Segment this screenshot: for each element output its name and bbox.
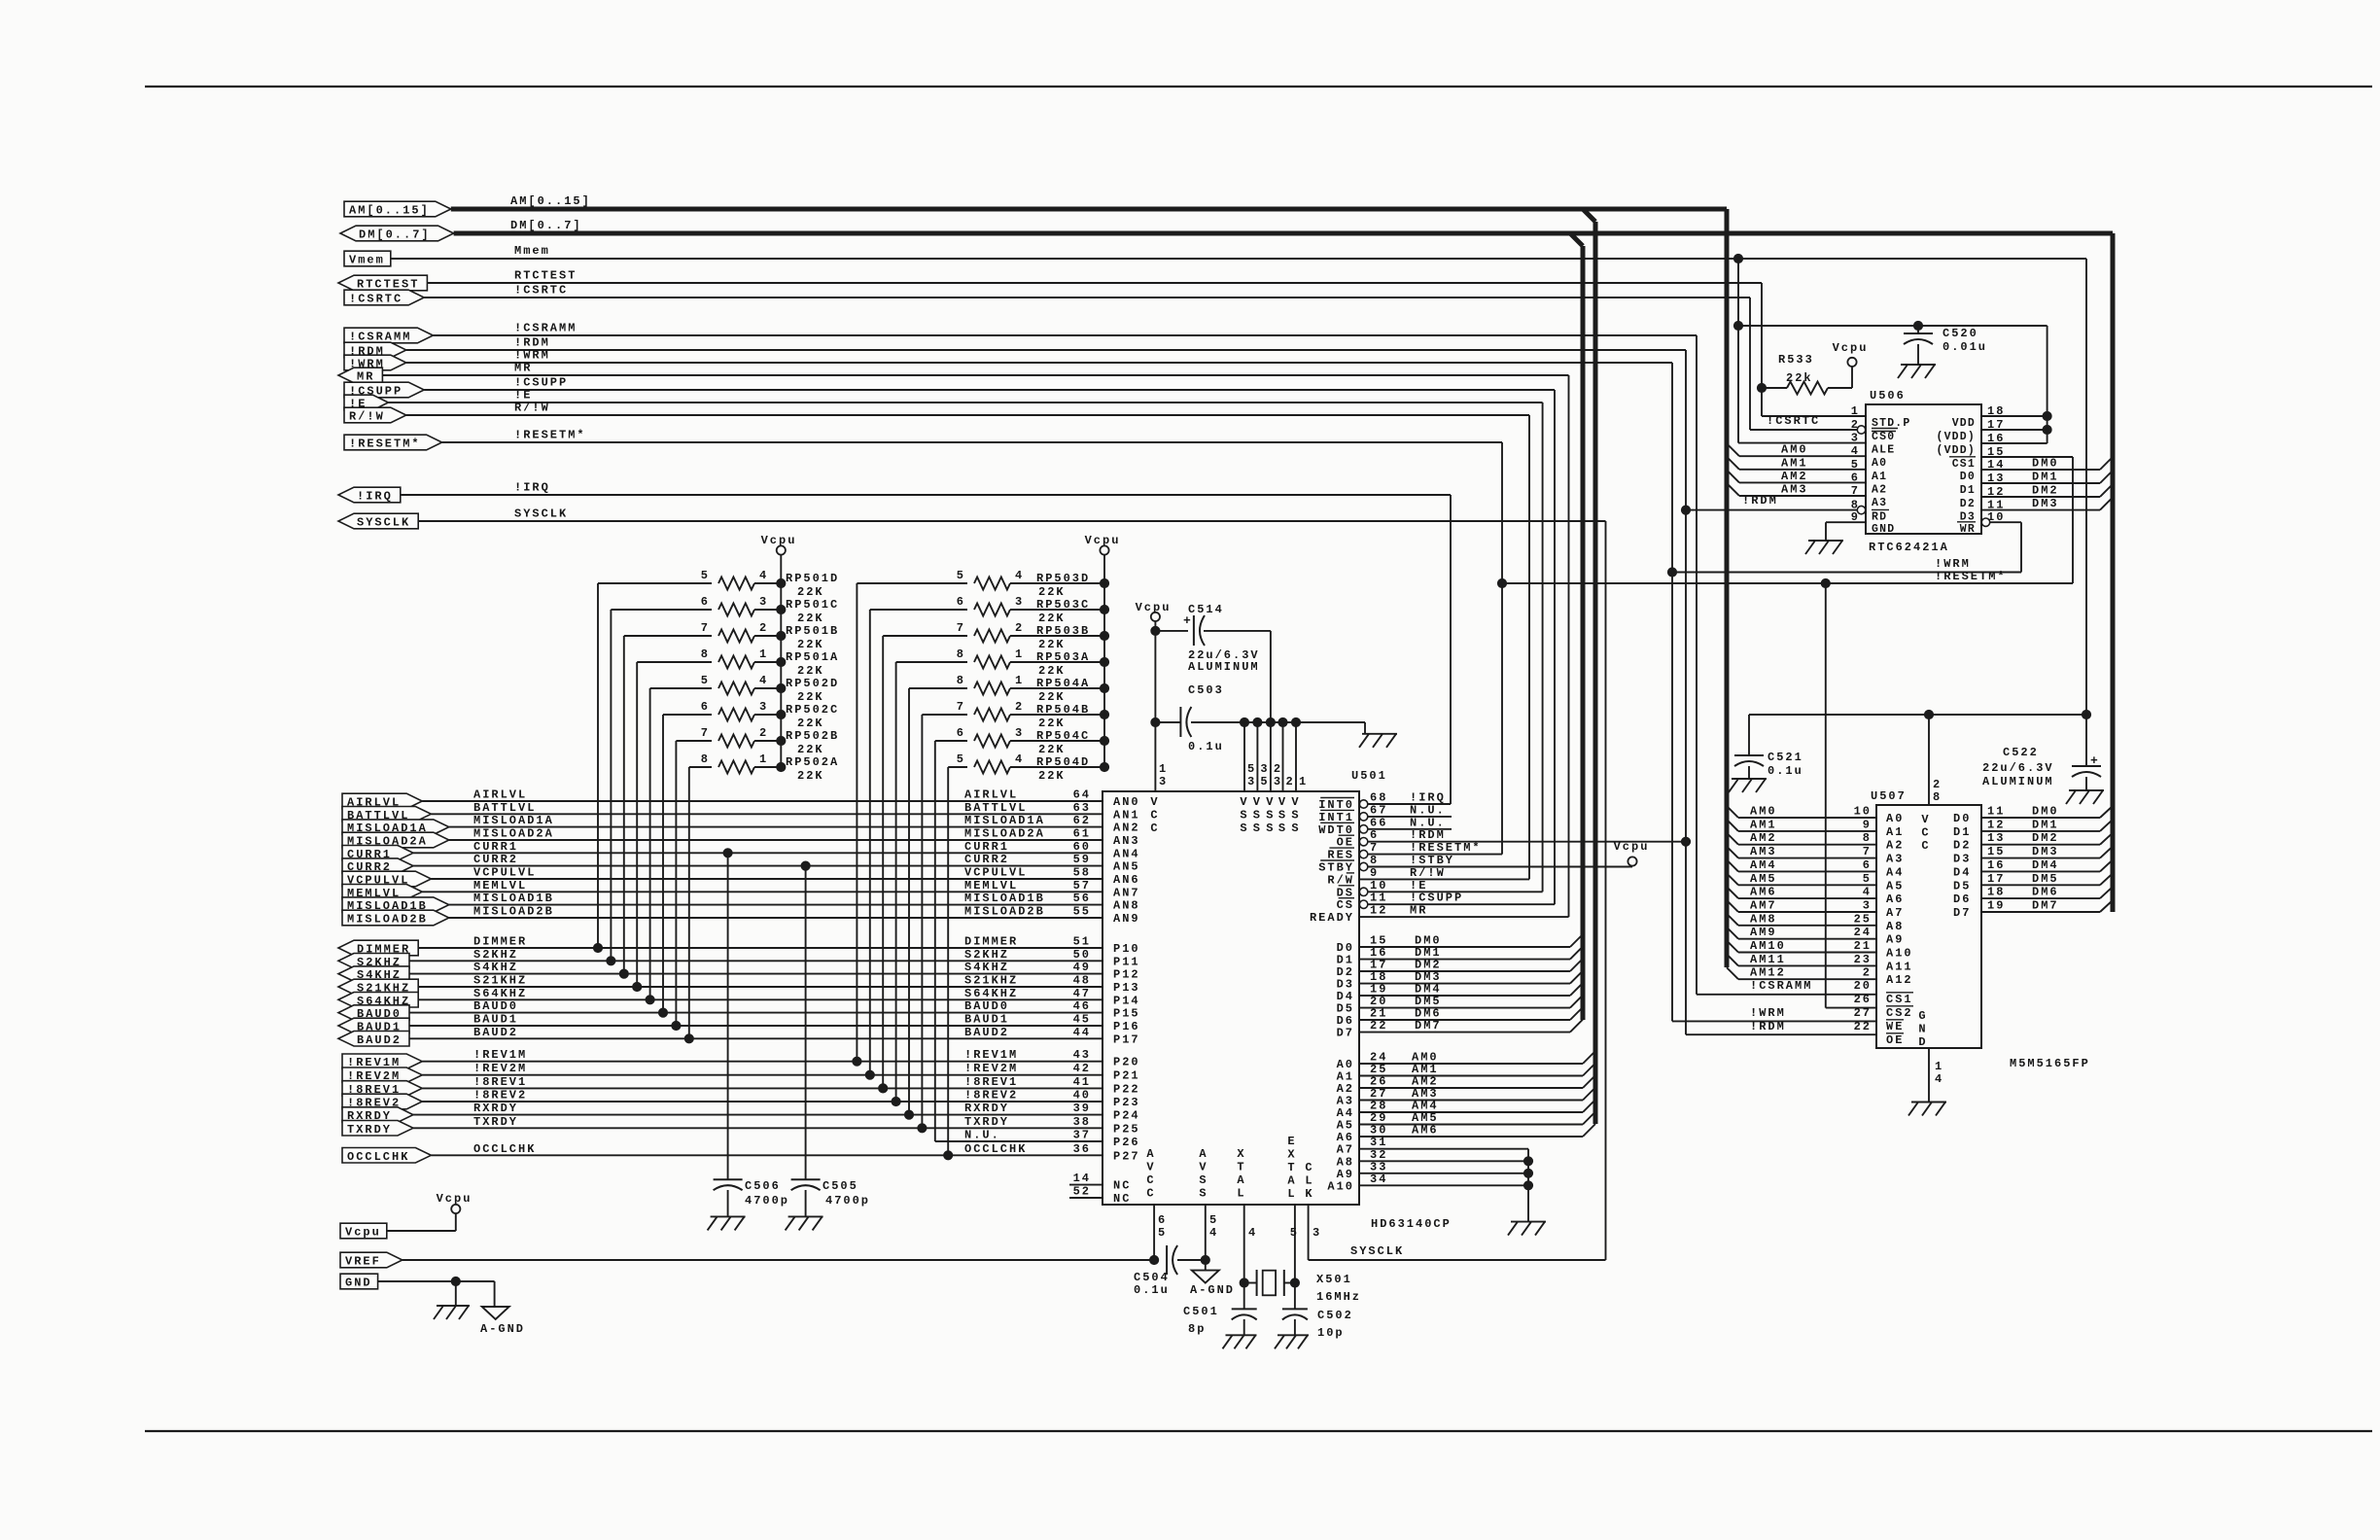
resistor RP501A 22K [637,661,712,663]
svg-text:AM7: AM7 [1750,899,1777,913]
ground A-GND (GND flag) [482,1307,509,1319]
svg-text:15: 15 [1987,845,2005,858]
wire Mmem to ALE vertical x=1788 [1737,259,1739,443]
bus DM branch diagonal to x=1628 [1570,233,1583,246]
svg-text:22K: 22K [1038,743,1066,756]
svg-text:2: 2 [1863,966,1872,980]
svg-text:AM10: AM10 [1750,939,1786,953]
svg-text:16MHz: 16MHz [1316,1290,1361,1304]
wire BATTLVL to U501 pin 63 [431,813,1102,815]
svg-text:6: 6 [1158,1213,1167,1227]
svg-text:R/!W: R/!W [1410,866,1446,880]
svg-text:68: 68 [1370,791,1387,805]
svg-text:!REV1M: !REV1M [473,1048,527,1062]
svg-text:3: 3 [1274,775,1282,788]
svg-text:L: L [1287,1187,1296,1201]
junction !RDM at U501 pin6 [1681,837,1690,846]
wire !RDM [406,349,1686,351]
wire AM9 to U507 A9 [1727,927,1738,939]
svg-text:22K: 22K [797,638,824,651]
svg-text:MISLOAD1B: MISLOAD1B [964,892,1045,905]
svg-text:A: A [1199,1147,1207,1161]
wire !RESETM* branch y=600 [1502,582,2073,584]
resistor RP503D 22K [857,582,967,584]
svg-text:AM5: AM5 [1750,872,1777,886]
svg-text:A: A [1287,1174,1296,1188]
wire R/!W vertical to U501 pin9 [1528,415,1530,879]
wire CURR2 to U501 pin 59 [413,865,1102,867]
svg-text:!RDM: !RDM [514,336,550,350]
flag BAUD1 [338,1018,409,1033]
svg-text:24: 24 [1854,926,1872,939]
wire RP503B leg down [882,636,884,1088]
svg-text:DIMMER: DIMMER [964,935,1018,949]
svg-text:P13: P13 [1113,981,1140,995]
svg-text:DM0: DM0 [2032,805,2059,819]
wire !RDM vertical riser x=1734 [1685,350,1687,1034]
svg-text:8: 8 [701,647,710,661]
svg-text:TXRDY: TXRDY [473,1115,518,1129]
svg-text:RP502C: RP502C [786,703,839,717]
svg-text:0.1u: 0.1u [1188,740,1224,753]
svg-text:BAUD1: BAUD1 [473,1013,518,1027]
svg-text:A8: A8 [1886,920,1904,933]
svg-text:5: 5 [957,569,965,582]
wire U506 pin8 RD [1857,506,1865,513]
wire RP504B leg down [921,715,923,1128]
svg-text:C: C [1305,1161,1313,1174]
svg-text:Vcpu: Vcpu [1614,840,1650,854]
flag RXRDY [342,1107,413,1123]
wire !8REV1 to U501 pin 41 [422,1087,1102,1089]
svg-text:!RDM: !RDM [1410,828,1446,842]
wire TXRDY to U501 pin 38 [413,1127,1102,1129]
svg-text:T: T [1237,1161,1245,1174]
wire !RESETM* [442,441,1502,443]
svg-text:1: 1 [1015,674,1024,687]
svg-text:N.U.: N.U. [964,1129,1000,1142]
svg-text:DIMMER: DIMMER [473,935,527,949]
svg-text:2: 2 [759,726,768,740]
svg-text:14: 14 [1073,1172,1091,1185]
svg-text:A0: A0 [1872,457,1887,470]
wire AM5 to U507 A5 [1727,873,1738,885]
svg-text:P11: P11 [1113,955,1140,968]
svg-text:1: 1 [1935,1060,1943,1073]
svg-text:V: V [1253,795,1262,809]
svg-text:!CSRTC: !CSRTC [1767,414,1820,428]
wire !RESETM* to U507 CS2 pin26 [1826,1007,1876,1009]
svg-text:S: S [1240,822,1248,835]
wire !CSRTC vertical to U506 CS0 [1749,297,1751,430]
svg-text:V: V [1146,1161,1155,1174]
svg-text:C503: C503 [1188,683,1224,697]
bus DM vertical x=1628 to U501 D pins [1581,246,1586,1020]
svg-text:2: 2 [1015,621,1024,635]
svg-text:S: S [1291,822,1300,835]
wire U506 VDD pin18 [1981,415,2047,417]
svg-text:6: 6 [701,595,710,609]
svg-text:MISLOAD1A: MISLOAD1A [473,814,554,827]
wire U507 D3 to DM bus [1981,857,2100,859]
svg-text:AM2: AM2 [1750,831,1777,845]
svg-text:AN5: AN5 [1113,860,1140,874]
svg-text:DM5: DM5 [2032,872,2059,886]
svg-text:CS0: CS0 [1872,431,1895,443]
svg-text:S4KHZ: S4KHZ [964,961,1009,974]
svg-text:7: 7 [957,621,965,635]
wire RP502A leg down [688,767,690,1038]
svg-text:22K: 22K [797,585,824,599]
wire U506 DM2 to DM bus [1981,496,2100,498]
capacitor C521 0.1u [1748,715,1750,755]
svg-text:AM3: AM3 [1781,483,1808,497]
svg-text:8: 8 [957,674,965,687]
svg-text:2: 2 [1933,778,1942,791]
flag !CSUPP [344,382,424,398]
svg-text:D4: D4 [1953,865,1971,879]
svg-text:!REV1M: !REV1M [964,1048,1018,1062]
wire U506 DM3 to DM bus [1981,509,2100,511]
svg-text:!CSUPP: !CSUPP [1410,892,1463,905]
svg-text:0.01u: 0.01u [1942,340,1987,354]
wire AM4 to U507 A4 [1727,859,1738,871]
svg-text:RP501D: RP501D [786,572,839,585]
wire !RESETM* vertical riser x=1545 [1501,442,1503,855]
svg-text:X: X [1237,1147,1245,1161]
svg-text:!CSRAMM: !CSRAMM [1750,979,1812,993]
wire U507 D2 to DM bus [1981,844,2100,846]
capacitor C522 22u/6.3V ALUMINUM [2085,715,2087,766]
U501 pin5 EXTAL stub [1294,1205,1296,1283]
svg-text:63: 63 [1073,801,1091,815]
wire !8REV2 to U501 pin 40 [422,1101,1102,1102]
wire MISLOAD2B to U501 pin 55 [449,917,1102,919]
svg-text:R/!W: R/!W [349,410,385,424]
svg-text:BATTLVL: BATTLVL [964,801,1027,815]
svg-text:A: A [1237,1173,1245,1187]
ground (C502) [1277,1334,1309,1336]
svg-text:16: 16 [1987,858,2005,872]
svg-text:MISLOAD2B: MISLOAD2B [347,913,428,927]
U501 pin 24 A0 to AM bus [1359,1063,1583,1065]
junction C506 on CURR1 [723,849,732,857]
U501 pin 26 A2 to AM bus [1359,1087,1583,1089]
svg-text:AM12: AM12 [1750,966,1786,980]
svg-text:AN9: AN9 [1113,912,1140,926]
svg-text:10p: 10p [1317,1326,1345,1340]
svg-text:1: 1 [1015,647,1024,661]
svg-text:RP502D: RP502D [786,677,839,690]
wire AM3 to U506 [1727,483,1739,496]
svg-text:D: D [1918,1035,1927,1049]
svg-text:!WRM: !WRM [514,349,550,363]
svg-text:V: V [1199,1161,1207,1174]
svg-text:!IRQ: !IRQ [1410,791,1446,805]
svg-text:4: 4 [759,569,768,582]
svg-text:13: 13 [1987,831,2005,845]
bus DM[0..7] horizontal [454,231,2113,236]
svg-text:MEMLVL: MEMLVL [964,879,1018,892]
wire SYSCLK from CLK pin [1309,1259,1606,1261]
svg-text:22K: 22K [797,664,824,678]
wire U506 pin2 CS0 [1857,426,1865,434]
svg-text:A: A [1146,1147,1155,1161]
svg-text:7: 7 [957,700,965,714]
svg-text:V: V [1240,795,1248,809]
svg-text:!8REV1: !8REV1 [964,1075,1018,1089]
svg-text:8p: 8p [1188,1322,1206,1336]
flag Vcpu (bottom) [340,1223,387,1239]
svg-text:!8REV1: !8REV1 [473,1075,527,1089]
svg-text:4: 4 [1935,1072,1943,1086]
svg-text:!CSRAMM: !CSRAMM [349,331,411,344]
ground (C522) [2069,789,2104,791]
wire Mmem vertical x=2146 to U507 VCC rail [2085,259,2087,715]
svg-text:27: 27 [1854,1006,1872,1020]
svg-text:3: 3 [1015,595,1024,609]
svg-text:RP503C: RP503C [1036,598,1090,612]
wire AM6 to U507 A6 [1727,887,1738,898]
svg-text:CURR2: CURR2 [473,853,518,866]
svg-text:C521: C521 [1767,751,1803,764]
wire AM0 to U506 [1727,443,1739,456]
svg-text:44: 44 [1073,1026,1091,1039]
svg-text:RP504B: RP504B [1036,703,1090,717]
svg-text:AM2: AM2 [1781,470,1808,483]
wire S21KHZ to U501 pin 48 [418,986,1102,988]
svg-text:7: 7 [1863,845,1872,858]
svg-text:RP504D: RP504D [1036,755,1090,769]
svg-text:MISLOAD2A: MISLOAD2A [473,827,554,841]
svg-text:X: X [1287,1148,1296,1162]
svg-text:DM[0..7]: DM[0..7] [359,228,431,242]
wire U506 (VDD) pin17 [1981,429,2047,431]
svg-text:Mmem: Mmem [514,244,550,258]
svg-text:3: 3 [1312,1226,1321,1240]
svg-text:MISLOAD2B: MISLOAD2B [473,905,554,919]
capacitor C505 4700p [805,866,807,1180]
svg-text:RTCTEST: RTCTEST [357,278,419,292]
wire R/!W [406,414,1529,416]
U501 pin 16 D1 to DM bus [1359,959,1570,961]
svg-text:11: 11 [1987,805,2005,819]
svg-text:S4KHZ: S4KHZ [473,961,518,974]
wire !CSUPP [424,389,1555,391]
U501 pin 22 D7 to DM bus [1359,1032,1570,1033]
wire !CSRAMM vertical to U507 CS1 [1696,335,1697,995]
wire S4KHZ to U501 pin 49 [409,973,1102,975]
ground (U501 VSS) [1362,733,1397,735]
svg-text:4: 4 [1015,569,1024,582]
wire RP502D leg down [649,688,651,999]
U501 VSS pin stubs [1240,717,1248,726]
resistor RP502C 22K [663,714,712,716]
svg-text:45: 45 [1073,1013,1091,1027]
svg-text:8: 8 [957,647,965,661]
wire RP501B leg down [623,636,625,974]
bus flag AM[0..15] [344,201,451,217]
svg-text:!RESETM*: !RESETM* [1410,841,1482,855]
svg-text:C506: C506 [745,1179,781,1193]
svg-text:0.1u: 0.1u [1767,764,1803,778]
svg-text:BAUD2: BAUD2 [473,1026,518,1039]
svg-text:V: V [1278,795,1287,809]
svg-text:DM6: DM6 [2032,886,2059,899]
wire !WRM to U507 WE pin27 [1672,1020,1876,1022]
U501 pin 29 A5 to AM bus [1359,1124,1583,1126]
svg-text:11: 11 [1370,892,1387,905]
svg-text:Vcpu: Vcpu [1833,341,1869,355]
wire BAUD2 to U501 pin 44 [409,1037,1102,1039]
U501 pin 19 D4 to DM bus [1359,995,1570,997]
wire !WRM [406,362,1672,364]
resistor RP502A 22K [689,766,712,768]
svg-text:!RDM: !RDM [1750,1020,1786,1033]
svg-text:P25: P25 [1113,1122,1140,1136]
svg-text:MISLOAD1A: MISLOAD1A [964,814,1045,827]
flag VREF [340,1252,402,1268]
svg-text:43: 43 [1073,1048,1091,1062]
wire RP504C leg down to N.U. [934,741,936,1141]
svg-text:!RESETM*: !RESETM* [1935,570,2007,583]
wire RP502C leg down [662,715,664,1013]
svg-text:AM6: AM6 [1750,886,1777,899]
svg-text:S: S [1240,809,1248,822]
svg-text:52: 52 [1073,1185,1091,1199]
svg-text:5: 5 [701,569,710,582]
svg-text:S: S [1199,1187,1207,1201]
svg-text:AIRLVL: AIRLVL [473,788,527,802]
bus flag DM[0..7] [340,226,454,241]
wire CURR1 to U501 pin 60 [413,852,1102,854]
svg-text:RP503A: RP503A [1036,650,1090,664]
U501 pin 7 RES [1359,850,1367,857]
svg-text:S64KHZ: S64KHZ [964,987,1018,1000]
svg-text:22K: 22K [797,769,824,783]
svg-text:A11: A11 [1886,960,1913,973]
svg-text:62: 62 [1073,814,1091,827]
flag !CSRAMM [344,328,433,343]
svg-text:34: 34 [1370,1172,1387,1186]
wire U506 CS1 pin15 [1981,456,2073,458]
svg-text:22K: 22K [797,612,824,625]
svg-text:OCCLCHK: OCCLCHK [473,1142,536,1156]
IC U507 M5M5165FP box [1876,805,1981,1048]
U501 pin 21 D6 to DM bus [1359,1019,1570,1021]
svg-text:AM3: AM3 [1750,845,1777,858]
wire MISLOAD1B to U501 pin 56 [449,904,1102,906]
wire MR vertical to U501 pin12 [1568,375,1570,917]
svg-text:P27: P27 [1113,1149,1140,1163]
svg-text:4: 4 [759,674,768,687]
svg-text:AN0: AN0 [1113,795,1140,809]
wire RTCTEST [427,282,1762,284]
svg-text:C: C [1921,826,1930,840]
svg-text:CS1: CS1 [1886,993,1913,1006]
svg-text:OE: OE [1886,1033,1904,1047]
svg-text:(VDD): (VDD) [1936,444,1976,457]
svg-text:4: 4 [1248,1226,1257,1240]
svg-text:AM1: AM1 [1781,456,1808,470]
svg-text:G: G [1918,1009,1927,1023]
resistor RP504D 22K [948,766,967,768]
U501 pin54 AVSS stub [1205,1205,1207,1260]
svg-text:3: 3 [759,700,768,714]
svg-text:P16: P16 [1113,1020,1140,1033]
resistor RP503A 22K [896,661,967,663]
svg-text:RP501C: RP501C [786,598,839,612]
flag !RDM [344,342,406,358]
svg-text:37: 37 [1073,1129,1091,1142]
wire A7-A10 common to ground [1527,1149,1529,1222]
svg-text:AN6: AN6 [1113,873,1140,887]
wire MISLOAD1A to U501 pin 62 [449,826,1102,828]
svg-text:5: 5 [1247,762,1256,776]
svg-text:BAUD1: BAUD1 [964,1013,1009,1027]
svg-text:6: 6 [701,700,710,714]
svg-text:VCPULVL: VCPULVL [964,866,1027,880]
wire !CSRAMM [433,334,1697,336]
wire SYSCLK [418,520,1605,522]
svg-text:N.U.: N.U. [1410,803,1446,817]
wire VDD vertical x=2105.6 [2047,326,2048,443]
flag MISLOAD2B [342,910,449,926]
svg-text:SYSCLK: SYSCLK [1350,1244,1404,1258]
flag S4KHZ [338,966,409,982]
svg-text:8: 8 [1863,831,1872,845]
capacitor C514 22u/6.3V ALUMINUM [1155,630,1188,632]
wire VSS rail y=743 [1191,721,1365,723]
bus AM branch diagonal to x=1641 [1583,209,1595,222]
svg-text:AM0: AM0 [1750,805,1777,819]
svg-text:5: 5 [957,752,965,766]
resistor RP501B 22K [624,635,712,637]
svg-text:A10: A10 [1327,1179,1354,1193]
wire RP504D leg down [947,767,949,1155]
svg-text:!IRQ: !IRQ [514,481,550,495]
svg-text:BAUD2: BAUD2 [357,1033,402,1047]
svg-text:N.U.: N.U. [1410,816,1446,829]
flag GND [340,1274,378,1289]
svg-text:AM11: AM11 [1750,953,1786,966]
svg-text:19: 19 [1987,899,2005,913]
svg-text:6: 6 [1370,828,1379,842]
svg-text:CS2: CS2 [1886,1006,1913,1020]
flag MISLOAD2A [342,832,449,848]
svg-text:X501: X501 [1316,1273,1352,1286]
wire GND down to chassis [455,1281,457,1306]
svg-text:S21KHZ: S21KHZ [473,974,527,988]
bus DM vertical main x=2173 [2111,233,2116,912]
svg-text:BAUD2: BAUD2 [964,1026,1009,1039]
svg-text:HD63140CP: HD63140CP [1371,1217,1452,1231]
svg-text:AM9: AM9 [1750,926,1777,939]
junction C505 on CURR2 [801,861,810,870]
svg-text:!8REV2: !8REV2 [473,1089,527,1102]
svg-text:6: 6 [957,595,965,609]
svg-text:R/!W: R/!W [514,402,550,415]
svg-text:MR: MR [1410,904,1427,918]
svg-text:C505: C505 [822,1179,858,1193]
wire C514 to VSS rail [1270,631,1272,722]
wire RP501A leg down [636,662,638,987]
capacitor C506 4700p [727,853,729,1179]
svg-text:C502: C502 [1317,1309,1353,1322]
flag MISLOAD1A [342,820,449,835]
svg-text:NC: NC [1113,1179,1131,1193]
wire RP501D leg down [597,583,599,948]
